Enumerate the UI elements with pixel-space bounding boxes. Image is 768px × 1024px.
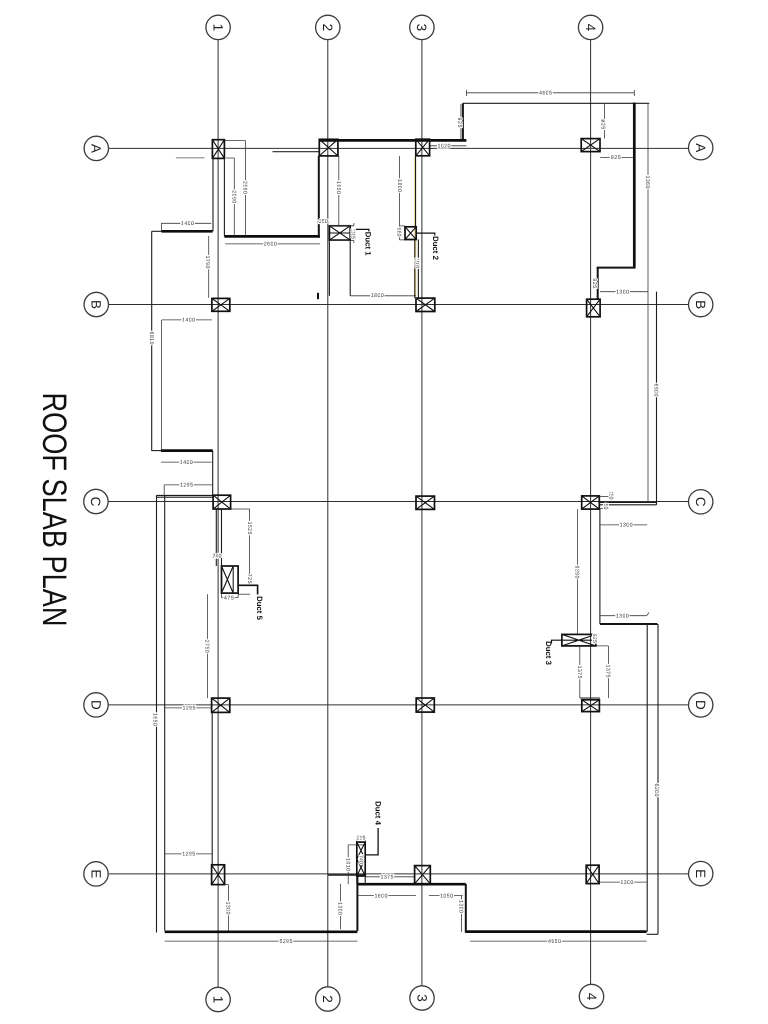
dim 2590 vertical: [224, 141, 245, 236]
dim 1050 below E: [429, 895, 463, 897]
wall step up vertical at x462.9: [462, 103, 464, 140]
dim 2750 vertical: [207, 594, 209, 698]
svg-text:725: 725: [246, 574, 252, 584]
dim o25 vertical: [604, 104, 606, 139]
wall along E left of duct4: [328, 874, 365, 876]
dim 925 right below A: [600, 156, 633, 158]
circle A right: [689, 136, 713, 160]
wall duct3 shaft bottom step: [580, 697, 600, 699]
wall duct2 shaft left below: [414, 240, 416, 299]
dim duct5 bottom connector: [238, 593, 250, 595]
dim 1525 725 vertical: [231, 509, 250, 585]
dim 5295 bottom: [165, 940, 358, 942]
wall left inner x164.7 C to bottom: [164, 495, 166, 930]
svg-text:4: 4: [584, 993, 599, 1001]
dim 2600 line: [225, 243, 320, 245]
dim 1010 vertical duct4: [348, 845, 366, 884]
svg-text:A: A: [89, 144, 104, 153]
column 3-C: [416, 496, 435, 509]
dim 1950 vertical: [338, 156, 340, 226]
svg-text:2600: 2600: [264, 242, 277, 248]
svg-text:250: 250: [319, 219, 328, 225]
dash gray left of col1A: [176, 157, 205, 159]
circle 3 bottom: [410, 986, 434, 1010]
wall bottom right outer thin: [647, 933, 658, 935]
grid axis B horizontal: [109, 304, 689, 306]
svg-text:6200: 6200: [653, 784, 659, 797]
column 2-A: [319, 139, 338, 156]
dim 2090 vertical: [226, 158, 234, 236]
wall duct1 shaft left: [328, 240, 330, 296]
wall step x465.8 bottom: [465, 884, 467, 933]
column 4-E: [586, 865, 599, 883]
column 1-B: [212, 298, 230, 311]
dim 1375 at E: [365, 876, 414, 878]
grid axis 2 vertical: [327, 40, 329, 987]
svg-text:1400: 1400: [180, 460, 193, 466]
svg-text:1950: 1950: [335, 181, 341, 194]
svg-text:6900: 6900: [653, 384, 659, 397]
circle 1 top: [206, 15, 230, 39]
dim 1600 below E: [358, 895, 416, 897]
leader duct 2: [416, 233, 435, 236]
column 3-E: [415, 866, 431, 884]
svg-text:2750: 2750: [204, 640, 210, 653]
svg-text:1300: 1300: [225, 902, 231, 915]
svg-text:4605: 4605: [539, 91, 552, 97]
wall C level double upper left: [157, 494, 214, 496]
svg-text:3: 3: [414, 24, 429, 32]
svg-text:3: 3: [414, 994, 429, 1002]
yellow duct 2 line: [414, 158, 416, 296]
svg-text:9390: 9390: [574, 566, 580, 579]
dim 4950 bottom: [470, 940, 647, 942]
wall col1C to duct5 right: [221, 509, 223, 566]
svg-text:2: 2: [320, 24, 335, 32]
svg-text:E: E: [693, 869, 708, 878]
dim 1400 above C: [161, 461, 212, 463]
wall below E thick y884: [357, 883, 465, 886]
dash dark left of col2A: [273, 151, 320, 153]
circle E right: [689, 861, 713, 885]
svg-text:240: 240: [213, 553, 222, 559]
wall below col1A right face: [223, 158, 225, 236]
grid axis 4 vertical: [590, 40, 592, 985]
svg-text:2590: 2590: [242, 181, 248, 194]
wall right outer x656.5 B to C: [656, 292, 658, 505]
circle C left: [84, 489, 108, 513]
wall C level double lower left: [157, 496, 214, 498]
duct 2 box: [405, 227, 416, 240]
svg-text:1400: 1400: [182, 318, 195, 324]
svg-text:1500: 1500: [414, 258, 420, 268]
svg-text:475: 475: [224, 595, 234, 601]
svg-text:980: 980: [395, 228, 401, 237]
svg-text:1375: 1375: [381, 875, 394, 881]
svg-text:1: 1: [210, 24, 225, 32]
svg-text:1375: 1375: [605, 665, 611, 678]
dim 235 tiny duct4: [357, 836, 365, 843]
wall duct4 left: [356, 842, 358, 884]
wall thin right dim x648: [647, 104, 649, 503]
circle 3 top: [410, 15, 434, 39]
grid axis 1 vertical: [217, 40, 219, 988]
dim 1375 right duct3: [596, 646, 609, 698]
circle D right: [689, 693, 713, 717]
wall thick vertical x318.8 below col2A: [318, 156, 320, 238]
dim 240 tiny: [213, 556, 222, 558]
column 1-D: [212, 698, 230, 712]
dim 9390 vertical: [577, 509, 579, 634]
svg-text:6810: 6810: [148, 332, 154, 345]
svg-text:Duct 3: Duct 3: [544, 641, 553, 665]
duct 3 box: [562, 634, 596, 646]
circle B left: [84, 292, 108, 316]
svg-text:1300: 1300: [337, 902, 343, 915]
svg-text:1185: 1185: [349, 229, 355, 239]
wall below col1A left face: [212, 158, 214, 231]
wall duct4 right: [364, 842, 366, 884]
svg-text:50: 50: [602, 504, 608, 510]
dim 250 line: [319, 221, 330, 223]
svg-text:1360: 1360: [644, 176, 650, 189]
column 1-E: [212, 865, 225, 885]
svg-text:925: 925: [591, 278, 597, 288]
svg-text:E: E: [88, 869, 103, 878]
svg-text:925: 925: [591, 634, 597, 643]
grid axis A horizontal: [109, 147, 689, 149]
svg-text:Duct 4: Duct 4: [373, 801, 382, 825]
svg-text:1020: 1020: [438, 144, 451, 150]
dim 1300 below C right: [599, 524, 647, 526]
dim 1300 above B right: [600, 291, 648, 293]
wall right pair D-E outer x658: [657, 624, 659, 934]
column 4-B: [587, 299, 601, 317]
svg-text:925: 925: [456, 118, 462, 128]
dim 1790 vertical: [208, 236, 210, 298]
wall connector thin y231.3: [152, 230, 162, 232]
svg-text:B: B: [693, 300, 708, 309]
svg-text:740: 740: [358, 855, 364, 864]
wall jog x357.4 bottom: [356, 876, 358, 931]
wall duct1 shaft bottom 1800 line: [350, 295, 416, 297]
wall vertical above col4B: [597, 268, 599, 300]
svg-text:D: D: [88, 700, 103, 710]
svg-text:1375: 1375: [576, 666, 582, 679]
svg-text:1300: 1300: [616, 290, 629, 296]
svg-text:1525: 1525: [246, 522, 252, 535]
column 4-C: [582, 496, 600, 509]
dim 1400 below B: [162, 319, 212, 321]
wall below col4C x599.9: [599, 509, 601, 624]
wall top edge y103: [463, 102, 649, 104]
wall connector thin y450.6: [152, 450, 161, 452]
wall thick y231.3: [161, 230, 212, 233]
svg-text:925: 925: [611, 155, 621, 161]
wall x212.7 to col1C: [212, 451, 214, 496]
svg-text:Duct 5: Duct 5: [255, 596, 264, 620]
svg-text:Duct 2: Duct 2: [431, 236, 440, 260]
svg-text:150: 150: [608, 492, 614, 500]
wall duct2 shaft right below: [417, 240, 419, 299]
svg-text:2090: 2090: [231, 190, 237, 203]
wall left outer x156.5 C to bottom: [156, 495, 158, 932]
dim 1300 below col4E: [599, 881, 647, 883]
circle E left: [84, 862, 108, 886]
wall col1D to col1E: [211, 712, 213, 864]
duct 5 box: [222, 566, 239, 593]
svg-text:A: A: [693, 143, 708, 152]
svg-text:ø25: ø25: [600, 119, 606, 129]
circle C right: [689, 490, 713, 514]
leader duct 5: [238, 585, 258, 594]
svg-text:D: D: [693, 700, 708, 710]
wall duct1 shaft right: [349, 240, 351, 296]
circle 4 bottom: [579, 984, 603, 1008]
duct 4 box hatch: [357, 842, 365, 876]
dim 1300 above duct3 step: [600, 613, 649, 616]
dim 1300 vertical right of duct4 area: [461, 896, 463, 932]
circle 2 bottom: [316, 987, 340, 1011]
dim 1800 vertical duct2: [400, 156, 417, 240]
svg-text:1050: 1050: [440, 893, 453, 899]
wall step B4 horizontal y267.6: [597, 267, 636, 269]
circle 4 top: [578, 15, 602, 39]
svg-text:235: 235: [357, 835, 366, 841]
dim 925 vertical left step: [460, 104, 462, 139]
grid axis C horizontal: [108, 501, 688, 503]
dim tick col4C top: [599, 495, 613, 497]
grid axis 3 vertical: [421, 40, 423, 986]
svg-text:1295: 1295: [183, 706, 196, 712]
svg-text:1300: 1300: [458, 900, 464, 913]
column 3-B: [416, 298, 435, 311]
svg-text:ROOF SLAB PLAN: ROOF SLAB PLAN: [35, 393, 73, 627]
circle B right: [689, 292, 713, 316]
svg-text:Duct 1: Duct 1: [363, 232, 372, 256]
dim 4605 line: [466, 90, 634, 96]
wall C row double lower: [599, 504, 656, 506]
leader duct 1: [352, 229, 369, 231]
wall bottom right thick: [466, 930, 647, 933]
dim 1295 above E: [165, 853, 212, 855]
column 4-D: [582, 700, 600, 712]
svg-text:1400: 1400: [181, 221, 194, 227]
svg-text:C: C: [88, 497, 103, 507]
svg-text:5295: 5295: [280, 939, 293, 945]
wall bottom left thick y931.8: [165, 930, 358, 933]
svg-text:1650: 1650: [152, 713, 158, 726]
leader duct 4: [366, 828, 378, 855]
svg-text:1: 1: [210, 996, 225, 1004]
svg-text:1800: 1800: [396, 179, 402, 192]
wall step y624 right: [600, 623, 658, 625]
column 4-A: [581, 139, 600, 152]
svg-text:1800: 1800: [371, 293, 384, 299]
wall inner x161.4 below B: [160, 320, 162, 450]
svg-text:1600: 1600: [375, 893, 388, 899]
tick mark x318 above B: [317, 293, 319, 299]
grid axis E horizontal: [108, 873, 688, 875]
leader duct 3: [552, 640, 562, 643]
svg-text:1295: 1295: [182, 852, 195, 858]
svg-text:4950: 4950: [548, 939, 561, 945]
svg-text:1300: 1300: [616, 614, 629, 620]
svg-text:1300: 1300: [620, 523, 633, 529]
wall right pair D-E inner x647.2: [646, 624, 648, 932]
dim 1020 line: [430, 145, 466, 147]
svg-text:B: B: [89, 300, 104, 309]
column 3-D: [416, 698, 434, 712]
duct 1 box: [329, 223, 354, 243]
dim 1300 left of duct4: [339, 884, 341, 930]
wall C row double upper: [599, 502, 656, 504]
dim 1300 below col1E: [225, 885, 229, 931]
column 3-A: [416, 139, 430, 156]
wall right thick x634: [633, 103, 636, 268]
wall left upper x151.7 B to C: [151, 231, 153, 451]
wall thick y450.6: [161, 449, 213, 452]
grid axis D horizontal: [108, 704, 688, 706]
wall col1C to duct5 left: [215, 509, 217, 566]
column 1-A: [212, 140, 224, 159]
svg-text:C: C: [693, 497, 708, 507]
wall top A thick between col2A and step: [319, 139, 466, 142]
svg-text:1010: 1010: [344, 858, 350, 871]
dim 475 line: [222, 593, 239, 598]
svg-text:2: 2: [320, 995, 335, 1003]
dim 1400 upper left: [161, 223, 211, 231]
dim 1295 at D: [165, 707, 212, 709]
circle A left: [84, 136, 108, 160]
dim 1375 left duct3: [579, 646, 581, 698]
wall duct2 upper line x415.5: [415, 156, 417, 227]
dim 1295 above C: [164, 485, 212, 496]
column 1-C: [213, 495, 231, 509]
circle 2 top: [316, 15, 340, 39]
circle D left: [84, 693, 108, 717]
wall 2600 thick y236.4: [224, 235, 320, 238]
svg-text:1295: 1295: [180, 483, 193, 489]
svg-text:1790: 1790: [204, 256, 210, 269]
dim tick col4C bottom: [599, 508, 609, 510]
circle 1 bottom: [206, 987, 230, 1011]
svg-text:4: 4: [583, 24, 598, 32]
svg-text:1300: 1300: [620, 880, 633, 886]
